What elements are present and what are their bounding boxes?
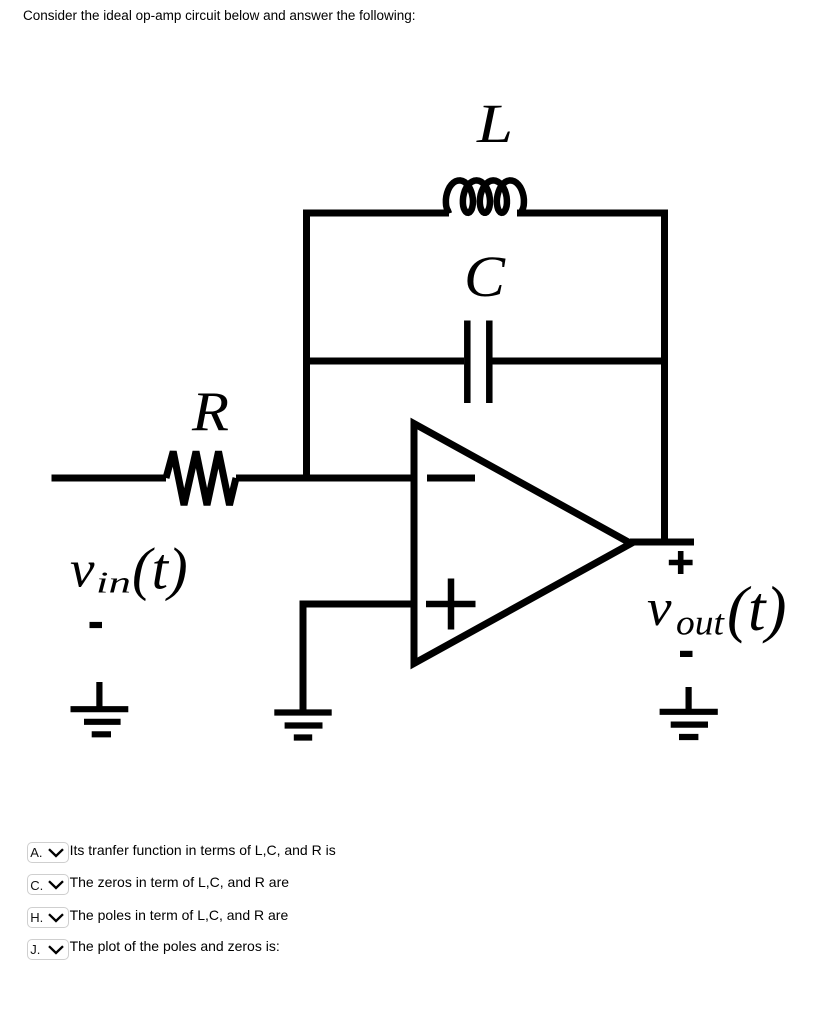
label vin(t)	[70, 536, 188, 602]
wire: capacitor branch left segment	[307, 358, 465, 365]
svg-text:(t): (t)	[132, 536, 188, 602]
ground (output reference)	[660, 687, 718, 737]
svg-text:v: v	[647, 580, 672, 637]
op-amp non-inverting input marker (+)	[426, 579, 476, 630]
label - (vin polarity)	[90, 622, 103, 628]
wire: top branch left segment	[303, 210, 449, 217]
dropdown J	[25, 939, 27, 960]
wire: left feedback vertical (node to top branch)	[303, 210, 310, 482]
op-amp U1	[414, 424, 631, 664]
op-amp inverting input marker (-)	[427, 475, 475, 482]
svg-text:(t): (t)	[727, 574, 786, 644]
svg-text:R: R	[191, 381, 229, 443]
ground (input reference)	[71, 682, 129, 734]
svg-text:v: v	[70, 542, 95, 599]
wire: op-amp output	[630, 539, 694, 546]
inductor L	[446, 180, 524, 213]
wire: capacitor branch right segment	[493, 358, 665, 365]
wire: top branch right segment	[517, 210, 668, 217]
resistor R	[166, 452, 236, 506]
dropdown H	[25, 907, 27, 928]
svg-text:out: out	[676, 603, 725, 643]
wire: right feedback vertical (top branch to output)	[661, 210, 668, 543]
wire: resistor to op-amp inverting input	[236, 475, 414, 482]
dropdown A	[25, 842, 27, 863]
dropdown C	[25, 874, 27, 895]
capacitor C	[467, 321, 489, 404]
wire: non-inverting input down to ground	[300, 601, 307, 712]
label - (vout polarity)	[680, 651, 693, 657]
label + (vout polarity)	[669, 551, 693, 574]
ground (non-inverting input)	[274, 713, 331, 738]
svg-text:C: C	[464, 244, 506, 309]
instruction text	[23, 8, 415, 23]
label vout(t)	[647, 574, 786, 644]
wire: non-inverting input horizontal	[300, 601, 415, 608]
wire: vin source to resistor	[52, 475, 167, 482]
svg-text:L: L	[476, 93, 513, 154]
svg-text:in: in	[96, 565, 131, 600]
